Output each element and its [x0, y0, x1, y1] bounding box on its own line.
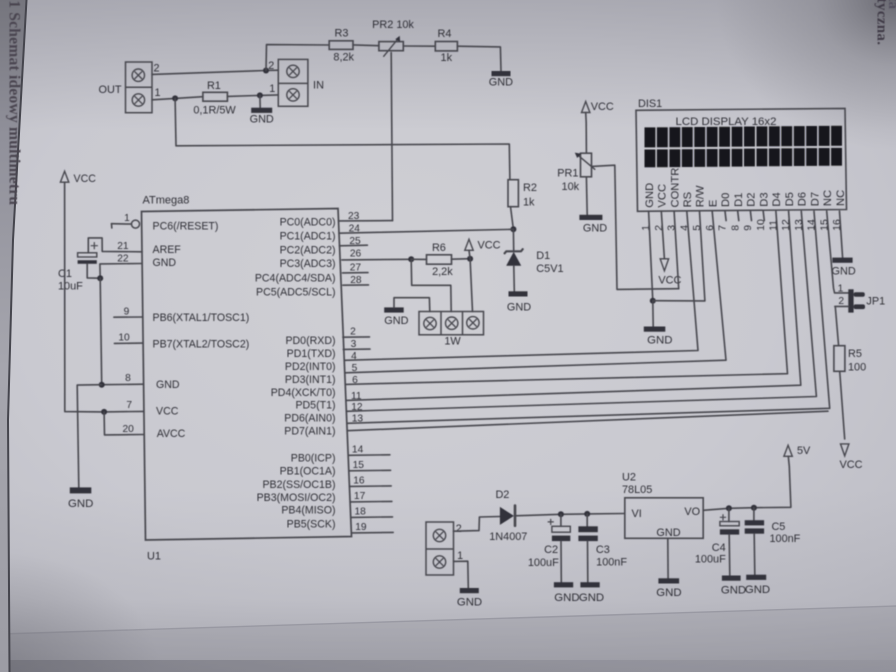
ground under D1 [509, 291, 528, 296]
svg-text:PB5(SCK): PB5(SCK) [287, 518, 336, 530]
resistor R5 [834, 346, 845, 372]
svg-text:. 1 Schemat ideowy multimetru: . 1 Schemat ideowy multimetru [6, 0, 23, 205]
capacitor C2 [560, 514, 562, 526]
wire R1 to IN1 [227, 95, 278, 97]
svg-text:10: 10 [118, 333, 130, 344]
svg-text:PC5(ADC5/SCL): PC5(ADC5/SCL) [256, 286, 335, 298]
svg-text:4: 4 [679, 225, 690, 231]
LCD pin 8 stub [738, 211, 739, 220]
wire R6 right to 1W right [470, 259, 472, 312]
wire LCD pin16 to ground [840, 211, 843, 257]
jumper JP1 [848, 289, 853, 312]
svg-text:6: 6 [705, 225, 716, 231]
svg-text:VCC: VCC [74, 173, 97, 185]
ground under C2 [554, 582, 573, 587]
ground under PR1 [579, 215, 602, 220]
ground under C5 [746, 575, 766, 580]
svg-text:3: 3 [667, 225, 678, 231]
ground after R4 [492, 71, 511, 76]
svg-text:D1: D1 [536, 250, 550, 262]
svg-text:1W: 1W [444, 336, 461, 348]
svg-text:PB1(OC1A): PB1(OC1A) [280, 465, 336, 477]
svg-text:9: 9 [743, 225, 754, 231]
arrow 5V [784, 445, 792, 456]
svg-text:28: 28 [350, 275, 362, 286]
ground LCD pin16 [832, 258, 852, 263]
U1 pin 14 stub [348, 454, 390, 457]
U1 pin 25 PC2 [340, 244, 368, 247]
svg-text:PR1: PR1 [557, 168, 578, 180]
svg-text:1k: 1k [441, 52, 453, 64]
regulator U2 78L05 [625, 498, 703, 539]
svg-text:GND: GND [156, 379, 180, 391]
svg-text:E: E [708, 200, 720, 207]
svg-text:PD7(AIN1): PD7(AIN1) [284, 426, 335, 438]
U1 pin 21 AREF [88, 238, 142, 253]
wire VO rail to 5V [703, 456, 791, 510]
junction pin 8 [99, 382, 105, 388]
svg-text:100: 100 [848, 361, 866, 373]
svg-text:R1: R1 [207, 80, 221, 92]
svg-text:10uF: 10uF [58, 281, 83, 293]
svg-text:D7: D7 [809, 192, 821, 206]
svg-text:PD0(RXD): PD0(RXD) [285, 335, 335, 347]
svg-text:19: 19 [355, 522, 367, 533]
junction pin 7 [101, 409, 107, 415]
svg-text:7: 7 [718, 225, 729, 231]
svg-text:7: 7 [126, 400, 132, 411]
svg-text:LCD DISPLAY 16x2: LCD DISPLAY 16x2 [676, 116, 777, 128]
svg-text:1k: 1k [523, 197, 535, 209]
wire OUT1 to R1 [152, 97, 203, 100]
LCD pin 10 stub [763, 211, 764, 220]
ground under C3 [580, 582, 599, 587]
wire PR1 to ground [585, 177, 588, 215]
svg-text:21: 21 [117, 241, 129, 252]
svg-text:GND: GND [250, 114, 274, 126]
svg-text:GND: GND [647, 335, 672, 347]
wire ground to 1W left [394, 298, 430, 312]
wire R6 [411, 258, 426, 260]
terminal block power input [426, 522, 454, 575]
svg-text:3: 3 [351, 339, 357, 350]
svg-text:1: 1 [457, 550, 463, 562]
junction C5 [751, 505, 757, 511]
svg-text:C3: C3 [596, 544, 610, 556]
wire R2 to D1 [511, 207, 514, 230]
svg-text:D4: D4 [771, 192, 783, 206]
U1 pin 1 PC6/RESET [111, 224, 113, 228]
VCC arrow PR1 [582, 102, 590, 113]
U1 pin 18 stub [351, 516, 393, 519]
resistor R6 [427, 255, 452, 264]
wire lower data run [347, 411, 828, 431]
svg-text:11: 11 [769, 220, 780, 231]
junction R1/IN1/GND [257, 92, 263, 98]
U1 pin 22 GND [100, 264, 142, 279]
svg-text:GND: GND [384, 315, 408, 327]
resistor R2 [508, 180, 518, 207]
wire to LCD ground [652, 301, 654, 327]
svg-text:IN: IN [313, 79, 324, 91]
svg-text:VI: VI [632, 508, 642, 520]
wire LCD pin15 to JP1 [827, 211, 849, 293]
wire D2 to U2 VI [515, 514, 625, 516]
svg-text:GND: GND [831, 266, 855, 278]
svg-text:R6: R6 [432, 242, 446, 254]
svg-text:100nF: 100nF [596, 557, 627, 569]
svg-text:1: 1 [838, 283, 844, 294]
wire OUT2 to IN2 [152, 70, 278, 74]
capacitor C5 [753, 508, 755, 521]
svg-text:D1: D1 [733, 193, 745, 207]
svg-text:R4: R4 [438, 28, 452, 40]
ground bottom left [70, 487, 92, 493]
svg-text:VCC: VCC [657, 184, 669, 208]
ground under LCD [644, 327, 666, 332]
svg-text:2: 2 [153, 63, 159, 75]
svg-text:PC1(ADC1): PC1(ADC1) [280, 231, 336, 243]
U1 pin 27 PC4 [343, 272, 369, 274]
svg-text:GND: GND [644, 183, 656, 208]
LCD pin 9 stub [750, 211, 751, 220]
svg-text:PD4(XCK/T0): PD4(XCK/T0) [271, 387, 336, 399]
svg-text:26: 26 [350, 248, 362, 259]
svg-text:D2: D2 [746, 192, 758, 206]
svg-text:100nF: 100nF [769, 533, 800, 545]
svg-text:GND: GND [656, 587, 681, 599]
U1 pin 20 AVCC [104, 412, 144, 435]
svg-text:PD2(INT0): PD2(INT0) [285, 361, 336, 373]
svg-text:14: 14 [352, 445, 364, 456]
wire JP1 pin2 to R5 [835, 305, 849, 307]
wire VCC rail [65, 182, 105, 412]
ground under R1 [251, 108, 272, 113]
svg-text:GND: GND [579, 592, 604, 604]
wire pin8 to ground [77, 385, 102, 488]
svg-text:8: 8 [125, 373, 131, 384]
svg-text:9: 9 [124, 307, 130, 318]
VCC arrow mid [465, 239, 473, 250]
resistor R1 [203, 92, 228, 101]
junction C4 [726, 505, 732, 511]
terminal block 1W [419, 312, 484, 335]
svg-text:R3: R3 [335, 27, 349, 39]
U1 pin 28 PC5 [343, 284, 369, 286]
svg-text:100uF: 100uF [528, 557, 559, 569]
svg-text:C5: C5 [771, 521, 785, 533]
svg-text:ATmega8: ATmega8 [143, 195, 190, 207]
svg-text:GND: GND [745, 584, 770, 596]
wire LCD pin5 R/W to GND [653, 211, 705, 301]
wire IN2 up to R3 [266, 45, 329, 71]
svg-text:PC3(ADC3): PC3(ADC3) [280, 258, 336, 270]
svg-text:D5: D5 [784, 192, 796, 206]
terminal block OUT [126, 62, 153, 113]
svg-text:D6: D6 [797, 192, 809, 206]
svg-text:12: 12 [781, 219, 792, 231]
potentiometer PR1 [581, 153, 592, 177]
wire LCD pin2 VCC [661, 211, 664, 259]
svg-text:PB4(MISO): PB4(MISO) [281, 504, 335, 516]
wire R6 left to 1W middle [411, 259, 451, 311]
svg-text:OUT: OUT [99, 84, 122, 96]
wire C1 to pin 8 rail [100, 278, 102, 385]
junction C3 [584, 511, 590, 517]
capacitor C1 [78, 253, 97, 257]
svg-text:1: 1 [124, 213, 130, 224]
U1 pin 24 PC1 [339, 229, 513, 233]
svg-text:PB0(ICP): PB0(ICP) [291, 452, 336, 464]
svg-text:VCC: VCC [156, 405, 179, 417]
svg-text:AVCC: AVCC [157, 428, 186, 440]
svg-text:13: 13 [794, 219, 805, 231]
svg-text:25: 25 [349, 236, 361, 247]
diode D2 [500, 507, 514, 525]
U1 pin 2 PD0 [343, 336, 370, 338]
svg-text:PB6(XTAL1/TOSC1): PB6(XTAL1/TOSC1) [153, 312, 250, 324]
U1 pin 23 PC0 [339, 220, 393, 222]
page underlay left margin [0, 0, 27, 672]
svg-text:22: 22 [117, 254, 129, 265]
VCC arrow under LCD [660, 259, 668, 271]
resistor R4 [435, 42, 457, 51]
svg-text:NC: NC [822, 190, 834, 206]
svg-text:10k: 10k [562, 181, 580, 193]
svg-text:PC0(ADC0): PC0(ADC0) [280, 217, 336, 229]
svg-text:VO: VO [684, 506, 700, 518]
svg-text:PB7(XTAL2/TOSC2): PB7(XTAL2/TOSC2) [153, 338, 250, 350]
svg-text:CONTR: CONTR [669, 168, 681, 208]
svg-text:18: 18 [355, 507, 367, 518]
svg-text:C4: C4 [712, 542, 726, 554]
svg-text:R5: R5 [848, 348, 862, 360]
svg-text:GND: GND [554, 592, 579, 604]
svg-text:GND: GND [583, 223, 607, 235]
svg-text:VCC: VCC [840, 459, 863, 471]
svg-text:1: 1 [154, 87, 160, 99]
svg-text:2: 2 [456, 523, 462, 535]
wire R4 to ground [457, 46, 501, 71]
wire U2 GND to ground [667, 538, 669, 578]
U1 pin 7 VCC [104, 410, 144, 413]
wire LCD pin3 CONTR [674, 211, 679, 289]
wire PC3 to R6 [342, 258, 411, 261]
wire power pin1 to ground [454, 561, 469, 588]
svg-text:PB2(SS/OC1B): PB2(SS/OC1B) [262, 479, 335, 491]
svg-text:1N4007: 1N4007 [489, 531, 527, 543]
svg-text:R/W: R/W [695, 185, 707, 207]
ground power input [460, 588, 479, 593]
svg-text:PD1(TXD): PD1(TXD) [287, 348, 336, 360]
U1 pin 9 PB6 [114, 316, 143, 318]
LCD character cells [645, 127, 656, 147]
svg-text:PC4(ADC4/SDA): PC4(ADC4/SDA) [255, 272, 336, 284]
svg-text:27: 27 [350, 263, 362, 274]
resistor R3 [329, 41, 353, 50]
svg-text:8: 8 [730, 225, 741, 231]
svg-text:C2: C2 [544, 544, 558, 556]
svg-text:VCC: VCC [591, 101, 614, 113]
svg-text:5V: 5V [797, 445, 811, 457]
svg-text:GND: GND [721, 585, 746, 597]
zener diode D1 [512, 229, 514, 250]
svg-text:D3: D3 [758, 192, 770, 206]
svg-text:2: 2 [350, 327, 356, 338]
svg-text:14: 14 [807, 219, 818, 231]
terminal block IN [278, 59, 308, 106]
junction LCD GND [650, 298, 656, 304]
wire to ground at R1 [259, 95, 261, 107]
VCC arrow top left [60, 171, 68, 182]
svg-text:VCC: VCC [478, 239, 501, 251]
svg-text:U2: U2 [622, 472, 636, 484]
svg-text:D2: D2 [495, 489, 509, 501]
svg-text:17: 17 [354, 491, 366, 502]
wire OUT1 junction to R2 [175, 98, 510, 179]
svg-text:AREF: AREF [153, 244, 182, 256]
U1 pin 15 stub [349, 469, 391, 472]
wire PR2 wiper to PC0 [391, 53, 392, 221]
svg-text:PD3(INT1): PD3(INT1) [285, 374, 336, 386]
svg-text:GND: GND [489, 77, 513, 89]
svg-text:1: 1 [269, 83, 275, 95]
wire R5 to VCC [840, 371, 845, 439]
wire LCD pin1 GND [649, 211, 653, 301]
wire PR2 to R4 [403, 45, 435, 47]
svg-text:2: 2 [838, 296, 844, 307]
junction R6 right [467, 256, 473, 262]
U1 pin 3 PD1 [343, 348, 370, 350]
junction R6 left [408, 256, 414, 262]
potentiometer PR2 [379, 42, 403, 51]
svg-text:23: 23 [348, 211, 360, 222]
svg-text:GND: GND [507, 301, 531, 313]
ground under U2 [658, 578, 679, 583]
svg-text:GND: GND [457, 597, 482, 609]
svg-text:24: 24 [349, 224, 361, 235]
svg-text:DIS1: DIS1 [638, 98, 662, 110]
capacitor C3 [586, 514, 588, 526]
svg-text:PC2(ADC2): PC2(ADC2) [280, 245, 336, 257]
junction PC1/R2/D1 [510, 226, 516, 232]
svg-text:2,2k: 2,2k [432, 266, 453, 278]
svg-text:PD5(T1): PD5(T1) [295, 400, 335, 412]
svg-text:PB3(MOSI/OC2): PB3(MOSI/OC2) [257, 492, 336, 504]
svg-text:20: 20 [123, 424, 135, 435]
U1 pin 19 stub [352, 531, 394, 534]
svg-text:GND: GND [656, 527, 680, 539]
svg-text:uzyta: uzyta [885, 0, 896, 9]
svg-text:R2: R2 [523, 182, 537, 194]
U1 pin 8 GND [102, 383, 144, 386]
svg-text:GND: GND [153, 257, 177, 269]
junction OUT2/R3 [263, 68, 269, 74]
svg-text:16: 16 [832, 219, 843, 231]
svg-text:U1: U1 [147, 551, 161, 563]
LCD pin 7 stub [725, 211, 726, 220]
VCC down arrow right [841, 444, 849, 456]
svg-text:8,2k: 8,2k [333, 52, 354, 64]
wire power pin2 to D2 [454, 517, 500, 532]
junction C1/pin22 [97, 275, 103, 281]
svg-text:JP1: JP1 [866, 296, 885, 308]
junction C2 [558, 511, 564, 517]
capacitor C4 [728, 508, 730, 521]
svg-text:PC6(/RESET): PC6(/RESET) [153, 220, 219, 232]
U1 pin 16 stub [350, 485, 392, 488]
svg-text:PR2 10k: PR2 10k [372, 19, 414, 31]
page edge line [8, 0, 27, 672]
svg-text:NC: NC [835, 190, 847, 206]
U1 pin 17 stub [350, 500, 392, 503]
LCD display DIS1 body [636, 108, 847, 211]
svg-text:16: 16 [353, 476, 365, 487]
wire PR1 wiper to LCD CONTR [592, 165, 679, 289]
svg-text:D0: D0 [720, 193, 732, 207]
svg-text:RS: RS [682, 192, 694, 208]
svg-text:GND: GND [68, 498, 93, 510]
svg-text:PD6(AIN0): PD6(AIN0) [284, 412, 335, 424]
svg-text:5: 5 [692, 225, 703, 231]
U1 pin 10 PB7 [114, 342, 142, 344]
ground under C4 [722, 576, 741, 581]
svg-text:C5V1: C5V1 [536, 263, 563, 275]
svg-text:15: 15 [353, 460, 365, 471]
svg-text:1: 1 [641, 225, 652, 231]
svg-text:78L05: 78L05 [622, 484, 652, 496]
junction OUT1 [172, 95, 178, 101]
svg-text:0,1R/5W: 0,1R/5W [193, 105, 236, 117]
svg-text:100uF: 100uF [695, 553, 726, 565]
ground left of 1W [384, 307, 404, 312]
wire R3 to PR2 [353, 44, 379, 47]
op-amp U1 ATmega8 body [142, 209, 352, 541]
svg-text:10: 10 [756, 219, 767, 231]
